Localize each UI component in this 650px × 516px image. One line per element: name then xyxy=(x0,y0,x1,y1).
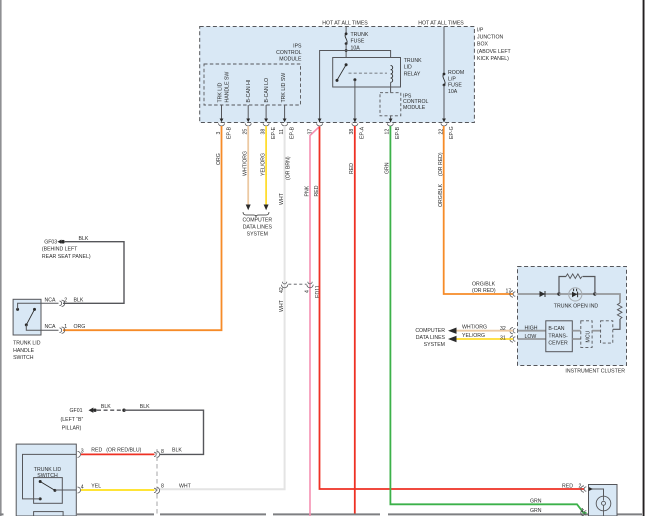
wire PNK branch diagonal xyxy=(310,127,320,516)
page left border xyxy=(0,0,2,516)
label COMPUTER DATA LINES SYSTEM (right) xyxy=(415,328,445,348)
wire feed split horizontal xyxy=(320,51,391,123)
svg-text:HOT AT ALL TIMES: HOT AT ALL TIMES xyxy=(418,20,464,26)
svg-text:HANDLE: HANDLE xyxy=(13,348,35,354)
wire BLK dashed from GF01 xyxy=(97,409,124,411)
relay switch blade xyxy=(337,65,346,81)
wire pin 4 internal xyxy=(55,489,76,491)
svg-text:ORG/BLK: ORG/BLK xyxy=(438,183,444,207)
svg-text:SYSTEM: SYSTEM xyxy=(247,231,268,237)
svg-text:31: 31 xyxy=(500,335,506,341)
svg-text:B-CAN: B-CAN xyxy=(548,326,564,332)
svg-text:BLK: BLK xyxy=(172,447,182,453)
svg-text:BLK: BLK xyxy=(79,236,89,242)
svg-text:JUNCTION: JUNCTION xyxy=(477,35,503,41)
svg-text:LID: LID xyxy=(404,65,412,71)
wire pin 3 internal xyxy=(23,454,77,499)
svg-text:TRUNK: TRUNK xyxy=(351,32,369,38)
svg-text:GRN: GRN xyxy=(530,508,542,514)
wires B-CAN to MCU xyxy=(572,330,581,332)
connector at actuator pin 2 xyxy=(581,486,587,492)
wire RED from relay xyxy=(354,126,356,514)
svg-text:TRUNK LID: TRUNK LID xyxy=(34,467,62,473)
wire ORG/BLK vertical xyxy=(444,126,513,294)
svg-text:10A: 10A xyxy=(448,89,458,95)
node left of lamp xyxy=(557,292,560,295)
svg-text:WHT: WHT xyxy=(279,192,285,205)
wire RED vertical to actuator xyxy=(320,127,585,490)
lamp TRUNK OPEN IND xyxy=(559,293,595,295)
trunk fuse feed wire xyxy=(345,27,347,34)
parallel resistor branch xyxy=(559,277,566,295)
svg-text:ORG: ORG xyxy=(74,324,86,330)
inner IPS control module dashed box xyxy=(204,64,301,105)
svg-text:FUSE: FUSE xyxy=(448,83,462,89)
svg-text:IPS: IPS xyxy=(293,44,302,50)
svg-text:PNK: PNK xyxy=(305,185,311,196)
I/P junction box (module box) xyxy=(200,27,475,123)
svg-text:GRN: GRN xyxy=(385,162,391,174)
svg-text:MODULE: MODULE xyxy=(403,105,426,111)
svg-text:8: 8 xyxy=(161,449,164,455)
wire stubs from inner IPS box to module edge with arrows xyxy=(222,105,285,119)
second contact box (cut off) xyxy=(34,512,64,516)
connector cups at module bottom edge xyxy=(219,123,448,126)
wire relay common to pin 38 xyxy=(354,80,356,123)
svg-text:NCA: NCA xyxy=(45,297,56,303)
svg-text:SWITCH: SWITCH xyxy=(13,355,34,361)
svg-text:GF03: GF03 xyxy=(44,240,57,246)
switch box TRUNK LID HANDLE SWITCH xyxy=(13,299,41,335)
svg-text:(LEFT “B”: (LEFT “B” xyxy=(61,417,84,423)
svg-text:NCA: NCA xyxy=(45,324,56,330)
inline connector PNK pin 4 xyxy=(307,282,313,288)
wire LOW xyxy=(518,338,546,340)
svg-text:TRANS-: TRANS- xyxy=(548,333,568,339)
svg-text:HIGH: HIGH xyxy=(525,326,538,332)
svg-text:(OR RED/BLU): (OR RED/BLU) xyxy=(106,447,141,453)
wire BLK to trunk lid switch xyxy=(124,410,204,454)
svg-text:EP-B: EP-B xyxy=(395,126,401,139)
svg-text:ORG: ORG xyxy=(216,153,222,165)
MCU dashed box xyxy=(581,321,592,348)
relay switch pivot xyxy=(345,63,348,66)
switch box TRUNK LID SWITCH xyxy=(16,444,76,516)
svg-text:TRUNK: TRUNK xyxy=(404,58,422,64)
wire cluster internal from pin 17 xyxy=(518,293,560,295)
wire room fuse to pin 22 xyxy=(443,85,445,122)
svg-text:(ABOVE LEFT: (ABOVE LEFT xyxy=(477,49,512,55)
wire YEL/ORG vertical xyxy=(265,126,267,206)
svg-text:8: 8 xyxy=(161,484,164,490)
wire resistor to mcu box xyxy=(613,319,620,329)
connector at actuator pin 1 xyxy=(581,510,587,516)
dashed box right xyxy=(601,321,613,343)
label COMPUTER DATA LINES SYSTEM (middle) xyxy=(242,218,272,238)
svg-text:TRK LID SW: TRK LID SW xyxy=(281,73,287,103)
svg-text:WHT: WHT xyxy=(179,483,192,489)
room fuse feed wire xyxy=(443,27,445,76)
svg-text:(OR RED): (OR RED) xyxy=(438,152,444,176)
svg-text:BLK: BLK xyxy=(74,297,84,303)
svg-text:EP-G: EP-G xyxy=(449,126,455,139)
svg-text:HOT AT ALL TIMES: HOT AT ALL TIMES xyxy=(322,20,368,26)
svg-text:I/P: I/P xyxy=(477,27,484,33)
svg-text:(BEHIND LEFT: (BEHIND LEFT xyxy=(42,247,78,253)
svg-text:CEIVER: CEIVER xyxy=(548,341,568,347)
inline connector pin 8 top xyxy=(154,451,160,493)
wire WHT/ORG vertical xyxy=(247,126,249,206)
svg-text:INSTRUMENT CLUSTER: INSTRUMENT CLUSTER xyxy=(565,368,625,374)
svg-text:32: 32 xyxy=(500,326,506,332)
fuse TRUNK FUSE 10A xyxy=(345,32,348,35)
wire YEL/ORG to computer data lines xyxy=(456,338,513,340)
svg-text:(OR BRN): (OR BRN) xyxy=(285,156,291,180)
svg-text:SYSTEM: SYSTEM xyxy=(424,342,445,348)
svg-text:L/P: L/P xyxy=(448,76,456,82)
svg-text:B-CAN LO: B-CAN LO xyxy=(264,78,270,103)
svg-text:TRK LID: TRK LID xyxy=(218,82,224,102)
label IPS CONTROL MODULE (top) xyxy=(276,44,302,63)
svg-text:ROOM: ROOM xyxy=(448,70,464,76)
bottom section divider bar xyxy=(0,513,642,515)
svg-text:PILLAR): PILLAR) xyxy=(62,426,82,432)
wire HIGH xyxy=(518,330,546,332)
arrow WHT/ORG to data lines xyxy=(246,205,251,211)
junction node xyxy=(122,409,125,412)
svg-text:EP-B: EP-B xyxy=(226,126,232,139)
connector cups at cluster pins xyxy=(510,291,515,342)
connector at handle switch pin 2 xyxy=(59,300,64,333)
wire WHT vertical xyxy=(160,126,285,489)
svg-text:MCU: MCU xyxy=(586,330,592,342)
brace computer data lines xyxy=(243,212,269,217)
svg-text:FUSE: FUSE xyxy=(351,39,365,45)
svg-text:42: 42 xyxy=(279,287,285,293)
svg-text:TRUNK LID: TRUNK LID xyxy=(13,341,41,347)
wire small IPS box to pin 12 xyxy=(390,116,392,123)
arrow to pin 37 xyxy=(318,119,322,123)
wire ORG vertical xyxy=(63,126,222,330)
svg-text:TRUNK OPEN IND: TRUNK OPEN IND xyxy=(554,304,599,310)
wire lamp to resistor right xyxy=(595,294,620,303)
svg-text:RED: RED xyxy=(562,483,573,489)
svg-text:SWITCH: SWITCH xyxy=(37,473,58,479)
svg-text:KICK PANEL): KICK PANEL) xyxy=(477,56,509,62)
svg-text:GF01: GF01 xyxy=(70,408,83,414)
svg-text:WHT/ORG: WHT/ORG xyxy=(243,151,249,176)
wire BLK handle switch to ground xyxy=(63,242,124,304)
inline connector boundary dashed xyxy=(156,449,158,516)
svg-text:LOW: LOW xyxy=(525,334,537,340)
svg-text:MODULE: MODULE xyxy=(279,56,302,62)
wire actuator internal xyxy=(589,489,604,496)
actuator box (trunk lid release) xyxy=(589,485,618,516)
wire RED (OR RED/BLU) xyxy=(81,453,155,455)
svg-text:BOX: BOX xyxy=(477,42,488,48)
B-CAN transceiver box xyxy=(546,321,573,352)
arrow to computer data lines (low) xyxy=(448,336,457,342)
wire YEL xyxy=(81,489,155,491)
connector at trunk lid switch pins xyxy=(78,451,81,493)
label I/P JUNCTION BOX xyxy=(477,27,512,62)
svg-text:EP-B: EP-B xyxy=(289,126,295,139)
svg-text:4: 4 xyxy=(305,290,311,293)
wire GRN vertical xyxy=(390,126,586,513)
trunk lid switch contacts xyxy=(39,480,42,483)
fuse ROOM L/P FUSE 10A xyxy=(443,73,446,76)
svg-text:COMPUTER: COMPUTER xyxy=(415,328,445,334)
IPS control module dashed box (small) xyxy=(380,93,401,116)
resistor (top) xyxy=(566,274,582,279)
node right of lamp xyxy=(593,292,596,295)
svg-text:HANDLE SW: HANDLE SW xyxy=(225,72,231,103)
svg-text:YEL: YEL xyxy=(91,483,101,489)
inline connector WHT pin 42 xyxy=(281,282,287,288)
svg-text:REAR SEAT PANEL): REAR SEAT PANEL) xyxy=(42,254,91,260)
svg-text:1: 1 xyxy=(64,324,67,330)
relay coil xyxy=(391,66,393,83)
wire WHT/ORG to computer data lines xyxy=(456,330,513,332)
svg-text:RED: RED xyxy=(91,447,102,453)
svg-text:WHT: WHT xyxy=(279,299,285,312)
actuator motor circle xyxy=(596,496,611,511)
svg-text:YEL/ORG: YEL/ORG xyxy=(260,153,266,176)
inline connector dashed link xyxy=(288,283,306,285)
ground GF03 xyxy=(57,240,61,244)
svg-text:EP-A: EP-A xyxy=(360,126,366,139)
diode xyxy=(540,291,546,297)
wire coil to IPS control module xyxy=(390,82,392,92)
relay common contact xyxy=(353,78,356,81)
relay NO contact xyxy=(336,79,339,82)
node at feed split xyxy=(345,49,348,52)
svg-text:2: 2 xyxy=(64,297,67,303)
svg-text:BLK: BLK xyxy=(140,404,150,410)
svg-text:DATA LINES: DATA LINES xyxy=(416,335,446,341)
wire pin2 stub xyxy=(41,302,59,304)
relay actuation dashed link xyxy=(349,72,388,74)
svg-text:ORG/BLK: ORG/BLK xyxy=(472,281,496,287)
svg-text:CONTROL: CONTROL xyxy=(276,50,301,56)
trunk lid switch contact box xyxy=(34,478,63,504)
svg-text:RED: RED xyxy=(349,163,355,174)
svg-text:YEL/ORG: YEL/ORG xyxy=(462,333,485,339)
svg-text:B-CAN HI: B-CAN HI xyxy=(246,80,252,103)
resistor (right vertical) xyxy=(617,303,622,319)
svg-text:EP-E: EP-E xyxy=(271,126,277,139)
svg-text:WHT/ORG: WHT/ORG xyxy=(462,325,487,331)
svg-text:COMPUTER: COMPUTER xyxy=(242,218,272,224)
svg-text:GRN: GRN xyxy=(530,498,542,504)
instrument cluster box xyxy=(518,267,627,366)
relay box TRUNK LID RELAY xyxy=(333,58,401,88)
svg-text:BLK: BLK xyxy=(101,404,111,410)
svg-text:RED: RED xyxy=(314,185,320,196)
handle switch contacts xyxy=(16,308,19,311)
arrow YEL/ORG to data lines xyxy=(264,205,269,211)
ground GF01 xyxy=(89,408,94,413)
svg-text:(OR RED): (OR RED) xyxy=(472,288,496,294)
wire MCU to right box xyxy=(592,330,601,332)
arrow to computer data lines (high) xyxy=(448,328,457,334)
svg-text:DATA LINES: DATA LINES xyxy=(243,225,273,231)
page right border xyxy=(643,0,645,516)
wire fuse to relay xyxy=(345,44,347,65)
svg-text:RELAY: RELAY xyxy=(404,71,421,77)
